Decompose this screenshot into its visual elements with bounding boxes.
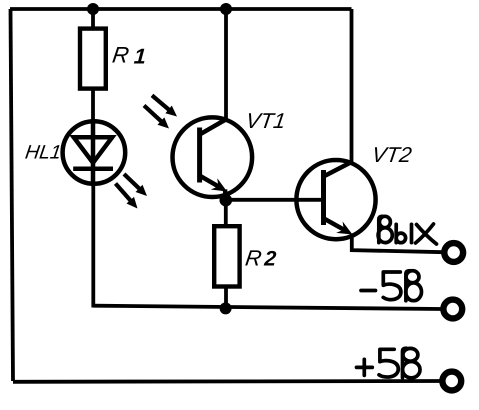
svg-text:VT1: VT1 [244,108,287,133]
svg-text:2: 2 [263,248,278,271]
svg-text:R: R [111,43,131,68]
svg-text:R: R [244,246,263,271]
svg-text:VT2: VT2 [370,142,413,167]
svg-text:HL1: HL1 [24,142,63,164]
svg-text:1: 1 [133,44,147,68]
